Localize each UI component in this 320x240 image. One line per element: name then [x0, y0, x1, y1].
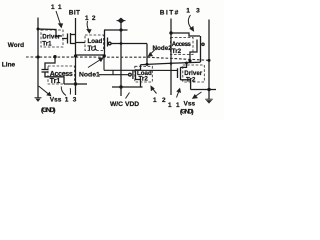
svg-text:W/C: W/C [110, 101, 123, 108]
wire load1 drain path [104, 48, 106, 56]
wire access2 gate to word line [190, 48, 197, 61]
svg-text:BIT: BIT [69, 10, 80, 17]
svg-text:Vss: Vss [50, 96, 62, 103]
svg-text:Tr2: Tr2 [172, 48, 182, 55]
svg-text:Tr1: Tr1 [88, 45, 98, 52]
svg-text:VDD: VDD [125, 101, 139, 108]
wire node2 column [146, 44, 148, 65]
svg-text:Node1: Node1 [79, 72, 100, 79]
wire node2 horizontal [141, 62, 201, 65]
ground right [205, 99, 213, 103]
leader 13 top to access Tr2 [188, 15, 193, 31]
svg-text:Line: Line [2, 62, 16, 69]
svg-text:Access: Access [172, 41, 192, 48]
wire node1 horizontal upper [76, 42, 86, 44]
leader 12 bottom to load Tr2 [151, 86, 157, 93]
leader Vss right [193, 92, 202, 98]
box access Tr2 [171, 38, 194, 55]
word line dashed [26, 57, 209, 60]
transistor load Tr1 [105, 30, 111, 48]
wire BIT/node1 column [75, 18, 77, 95]
svg-text:Word: Word [8, 42, 24, 49]
wire Vss left vertical [37, 18, 39, 98]
svg-text:(GND): (GND) [180, 108, 194, 115]
svg-text:1 1: 1 1 [168, 102, 181, 109]
box load Tr2 [135, 66, 153, 82]
wire access2 drain to BIT# [171, 33, 200, 36]
transistor load Tr2 [129, 65, 141, 87]
wire access1 source to BIT [64, 83, 87, 85]
wire Vss right vertical [208, 20, 210, 100]
svg-text:1 2: 1 2 [153, 97, 167, 104]
wire driver1 source to Vss [38, 29, 62, 36]
svg-text:1 3: 1 3 [186, 8, 202, 15]
wire access1 gate stub [45, 57, 55, 70]
ground left [35, 98, 42, 102]
wire driver1 gate lead [62, 38, 67, 40]
wire VDD top rail [104, 29, 128, 31]
svg-text:Tr2: Tr2 [139, 76, 149, 83]
wire node1 to load Tr2 gate [99, 55, 177, 75]
transistor access Tr2 [197, 36, 204, 62]
svg-text:Node2: Node2 [153, 45, 173, 52]
box access Tr1 [48, 66, 75, 84]
transistor access Tr1 [42, 70, 65, 85]
leader 11 bottom to driver Tr2 [177, 89, 181, 98]
svg-text:Vss: Vss [184, 101, 196, 108]
wire VDD bottom rail [112, 86, 143, 88]
junction dots [36, 28, 210, 92]
leader 11 top to driver Tr1 [56, 11, 62, 27]
transistor driver Tr1 [68, 33, 76, 44]
svg-text:Access: Access [50, 71, 73, 78]
leader 13 bottom to access Tr1 [61, 87, 70, 96]
svg-text:1 3: 1 3 [65, 96, 78, 103]
leader 12 top to load Tr1 [87, 21, 91, 33]
svg-text:Tr1: Tr1 [50, 78, 61, 85]
wire BIT# line vertical [170, 19, 172, 96]
wire VDD column [120, 23, 122, 97]
leader Node2 [149, 50, 156, 57]
box driver Tr2 [183, 65, 205, 82]
leader Vss left [39, 86, 51, 96]
leader Node1 [88, 58, 103, 68]
svg-text:BIT#: BIT# [160, 10, 179, 17]
wire gate line node2 upper [111, 43, 148, 45]
svg-text:Tr1: Tr1 [42, 40, 52, 47]
wire Vss right horizontal [191, 89, 216, 91]
svg-text:(GND): (GND) [41, 107, 56, 114]
svg-text:1 2: 1 2 [85, 15, 96, 22]
wire node1 horizontal to word junction [76, 54, 105, 56]
box load Tr1 [85, 35, 104, 51]
leader W/C VDD [126, 93, 130, 99]
svg-text:1 1: 1 1 [51, 4, 62, 11]
transistor driver Tr2 [178, 63, 191, 90]
svg-text:Tr2: Tr2 [186, 76, 196, 83]
VDD diamond symbol top [117, 18, 126, 23]
box driver Tr1 [41, 30, 63, 47]
